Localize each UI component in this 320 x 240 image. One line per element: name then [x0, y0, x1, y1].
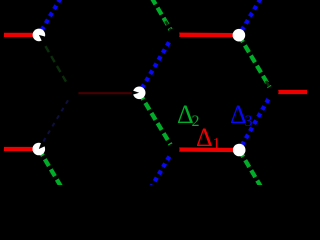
- svg-text:3: 3: [245, 113, 253, 130]
- wire: green z-bond C to V2 (labelled D2): [139, 93, 173, 150]
- wire: dim blue y-bond E to vacancy V3: [39, 93, 73, 149]
- node A: white site with wedge toward vacancy: [33, 29, 47, 42]
- node C: white site with wedge toward vacancy: [132, 87, 146, 100]
- wire: red x-bond into E from left edge: [4, 147, 39, 151]
- wire: blue y-bond D to V5 (labelled D3): [239, 92, 272, 150]
- wire: red x-bond into A from left edge: [4, 33, 39, 37]
- svg-text:2: 2: [192, 113, 200, 130]
- node E: white site with wedge toward vacancy: [33, 142, 46, 155]
- wire: green z-bond from D down-right off bottom: [239, 150, 273, 208]
- wire: green z-bond B to V5: [239, 35, 273, 92]
- wire: dim green z-bond A to vacancy V3: [45, 46, 66, 82]
- node B: white site: [233, 29, 246, 42]
- label Delta_2 (green) on C-V2 bond: [177, 100, 200, 130]
- wire: dim green remnant at V1 junction: [166, 21, 174, 35]
- node V1 (black sublattice site): [168, 29, 180, 41]
- wire: dim green remnant at V5 junction: [266, 81, 273, 92]
- node D: white site: [233, 144, 246, 157]
- wire: blue y-bond C to V1: [139, 35, 173, 93]
- wire: blue y-bond into V2 from bottom left: [140, 150, 174, 208]
- label Delta_1 (red) on V2-D bond: [196, 123, 221, 153]
- wire: red x-bond from V5 rightwards: [273, 90, 308, 94]
- label Delta_3 (blue) on D-V5 bond: [230, 100, 253, 130]
- node V5 (black sublattice site): [267, 86, 279, 98]
- node V3 (vacancy, black sublattice site): [67, 87, 79, 99]
- wire: dim red x-bond vacancy V3 to C: [75, 92, 136, 94]
- wire: red x-bond V1 to B: [174, 33, 239, 38]
- wire: blue y-bond from A up-right off top: [39, 0, 73, 35]
- wire: red x-bond V2 to D (labelled D1): [174, 147, 240, 152]
- wire: blue y-bond from B up-right off top: [239, 0, 273, 35]
- wire: green z-bond into V1 from top left: [140, 0, 174, 35]
- wire: green z-bond from E down-right off bottom: [39, 149, 73, 207]
- svg-text:1: 1: [213, 136, 221, 153]
- node V2 (black sublattice site): [168, 144, 180, 156]
